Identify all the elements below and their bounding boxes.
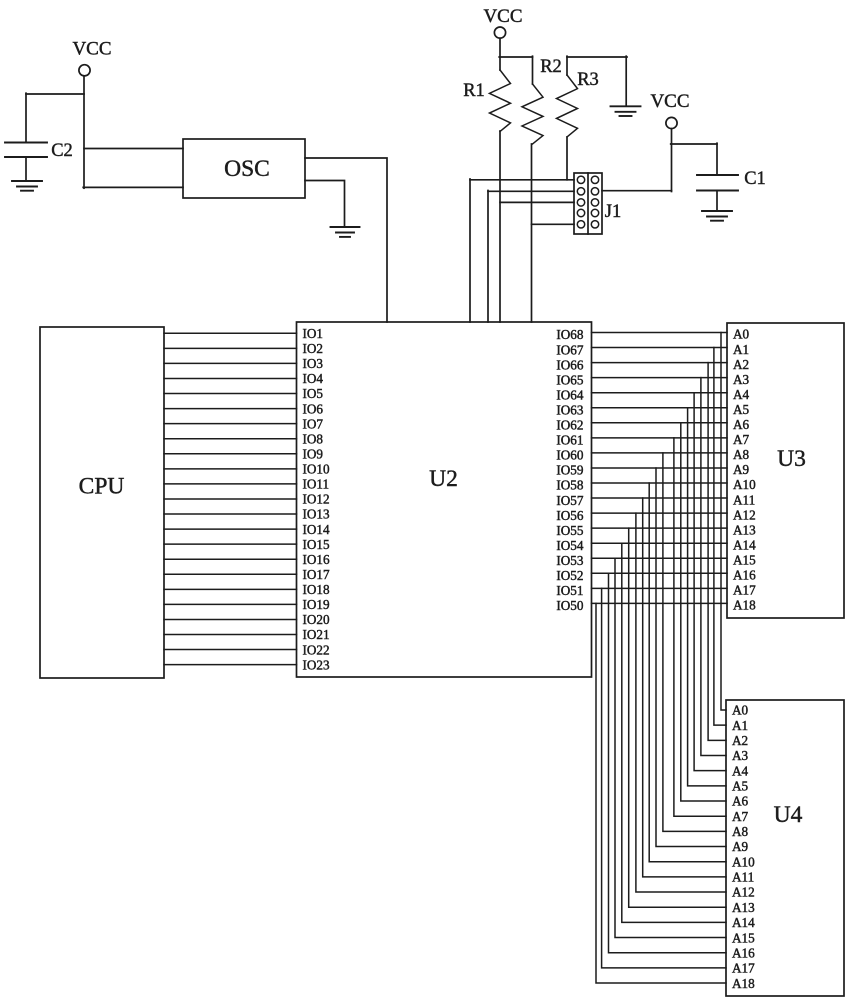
wire bus A8 down to U4 (663, 453, 726, 831)
svg-text:A16: A16 (732, 945, 755, 960)
svg-text:A0: A0 (732, 703, 749, 718)
wire CPU to U2 pin IO15 (164, 543, 297, 545)
wire (671, 143, 717, 145)
wire bus A5 down to U4 (688, 408, 726, 786)
wire (25, 157, 27, 181)
wire CPU to U2 pin IO8 (164, 438, 297, 440)
svg-text:IO50: IO50 (556, 598, 584, 613)
svg-text:IO15: IO15 (303, 537, 331, 552)
wire IO65 to U3 A3 (592, 377, 728, 379)
svg-text:U2: U2 (429, 466, 458, 492)
wire (532, 56, 534, 84)
wire CPU to U2 pin IO11 (164, 483, 297, 485)
svg-text:IO59: IO59 (556, 463, 584, 478)
svg-text:IO6: IO6 (303, 401, 324, 416)
wire (499, 38, 501, 70)
wire CPU to U2 pin IO3 (164, 362, 297, 364)
wire (716, 143, 718, 175)
svg-text:IO63: IO63 (556, 402, 584, 417)
svg-text:IO62: IO62 (556, 418, 583, 433)
wire (566, 56, 568, 75)
svg-text:A6: A6 (732, 794, 749, 809)
wire IO50 to U3 A18 (592, 602, 728, 604)
wire CPU to U2 pin IO13 (164, 513, 297, 515)
svg-text:IO9: IO9 (303, 446, 324, 461)
svg-text:VCC: VCC (483, 6, 522, 27)
svg-text:IO52: IO52 (556, 568, 583, 583)
svg-text:IO13: IO13 (303, 507, 331, 522)
ground (12, 181, 42, 191)
svg-text:IO14: IO14 (303, 522, 331, 537)
wire (487, 191, 489, 323)
wire bus A7 down to U4 (674, 438, 726, 816)
svg-text:A0: A0 (733, 327, 750, 342)
svg-text:A13: A13 (732, 900, 755, 915)
wire CPU to U2 pin IO17 (164, 573, 297, 575)
wire (84, 148, 183, 150)
wire bus A11 down to U4 (643, 498, 726, 877)
svg-text:A3: A3 (732, 748, 749, 763)
capacitor C1 (697, 174, 738, 176)
ground (611, 106, 641, 116)
svg-text:IO21: IO21 (303, 627, 330, 642)
memory U3 (727, 323, 844, 618)
resistor R2 (522, 84, 543, 144)
svg-text:A16: A16 (733, 568, 756, 583)
svg-text:A2: A2 (732, 733, 748, 748)
svg-text:IO17: IO17 (303, 567, 331, 582)
connector J1 body (574, 173, 602, 234)
svg-text:IO53: IO53 (556, 553, 584, 568)
svg-text:IO3: IO3 (303, 356, 324, 371)
svg-text:IO55: IO55 (556, 523, 584, 538)
svg-text:IO66: IO66 (556, 357, 584, 372)
wire IO58 to U3 A10 (592, 482, 728, 484)
wire IO57 to U3 A11 (592, 497, 728, 499)
svg-text:IO68: IO68 (556, 327, 584, 342)
wire IO56 to U3 A12 (592, 512, 728, 514)
svg-text:A12: A12 (733, 507, 756, 522)
ground (331, 227, 360, 237)
svg-text:IO4: IO4 (303, 371, 324, 386)
wire IO52 to U3 A16 (592, 572, 728, 574)
svg-text:IO54: IO54 (556, 538, 584, 553)
wire IO60 to U3 A8 (592, 452, 728, 454)
wire CPU to U2 pin IO5 (164, 393, 297, 395)
wire (305, 181, 345, 228)
svg-text:IO16: IO16 (303, 552, 331, 567)
wire bus A18 down to U4 (596, 603, 726, 983)
ground (702, 211, 732, 221)
svg-text:A6: A6 (733, 417, 750, 432)
svg-text:IO60: IO60 (556, 448, 584, 463)
svg-text:IO7: IO7 (303, 416, 324, 431)
svg-text:A9: A9 (732, 839, 749, 854)
svg-text:A5: A5 (733, 402, 750, 417)
wire bus A1 down to U4 (714, 348, 726, 726)
svg-text:IO57: IO57 (556, 493, 584, 508)
wire CPU to U2 pin IO23 (164, 664, 297, 666)
wire (488, 190, 574, 192)
svg-text:A10: A10 (733, 477, 756, 492)
resistor R1 (490, 70, 511, 132)
wire bus A17 down to U4 (602, 588, 726, 968)
wire (26, 93, 84, 95)
svg-text:A9: A9 (733, 462, 750, 477)
wire CPU to U2 pin IO1 (164, 332, 297, 334)
wire IO61 to U3 A7 (592, 437, 728, 439)
wire (532, 223, 575, 225)
wire bus A4 down to U4 (694, 393, 726, 771)
wire (469, 179, 471, 322)
svg-text:A18: A18 (732, 976, 755, 991)
svg-text:A15: A15 (732, 930, 755, 945)
svg-text:A14: A14 (732, 915, 755, 930)
wire (25, 93, 27, 142)
svg-text:A7: A7 (732, 809, 749, 824)
wire (499, 56, 532, 58)
wire bus A14 down to U4 (622, 543, 726, 922)
svg-text:CPU: CPU (79, 474, 125, 500)
wire IO51 to U3 A17 (592, 587, 728, 589)
wire (566, 137, 568, 180)
svg-text:IO20: IO20 (303, 612, 331, 627)
svg-text:U3: U3 (777, 446, 806, 472)
wire (500, 201, 574, 203)
wire (499, 131, 501, 322)
svg-text:IO5: IO5 (303, 386, 324, 401)
svg-text:VCC: VCC (650, 91, 689, 112)
svg-text:C1: C1 (744, 169, 766, 189)
wire (716, 191, 718, 212)
wire (531, 144, 533, 322)
svg-text:IO23: IO23 (303, 657, 331, 672)
wire CPU to U2 pin IO9 (164, 453, 297, 455)
resistor R3 (557, 75, 578, 137)
wire IO54 to U3 A14 (592, 542, 728, 544)
wire bus A12 down to U4 (636, 513, 726, 892)
svg-text:C2: C2 (51, 141, 73, 161)
svg-text:IO64: IO64 (556, 387, 584, 402)
wire CPU to U2 pin IO4 (164, 377, 297, 379)
svg-text:IO58: IO58 (556, 478, 584, 493)
svg-text:IO10: IO10 (303, 462, 331, 477)
wire (305, 158, 387, 322)
svg-text:U4: U4 (774, 802, 803, 828)
svg-text:A8: A8 (732, 824, 749, 839)
svg-text:IO11: IO11 (303, 477, 330, 492)
wire IO63 to U3 A5 (592, 407, 728, 409)
svg-text:IO67: IO67 (556, 342, 584, 357)
wire IO66 to U3 A2 (592, 362, 728, 364)
svg-text:IO56: IO56 (556, 508, 584, 523)
wire CPU to U2 pin IO7 (164, 423, 297, 425)
wire CPU to U2 pin IO20 (164, 618, 297, 620)
svg-text:A17: A17 (732, 961, 755, 976)
svg-text:A13: A13 (733, 522, 756, 537)
wire bus A9 down to U4 (656, 468, 726, 847)
svg-text:R3: R3 (577, 70, 599, 90)
svg-text:IO2: IO2 (303, 341, 324, 356)
svg-text:IO8: IO8 (303, 431, 324, 446)
svg-text:IO18: IO18 (303, 582, 331, 597)
memory U4 (726, 700, 844, 996)
oscillator OSC (183, 139, 305, 198)
wire IO67 to U3 A1 (592, 347, 728, 349)
wire CPU to U2 pin IO2 (164, 347, 297, 349)
svg-text:A4: A4 (732, 763, 749, 778)
wire bus A16 down to U4 (609, 573, 727, 952)
wire bus A6 down to U4 (681, 423, 726, 801)
wire IO53 to U3 A15 (592, 557, 728, 559)
wire IO62 to U3 A6 (592, 422, 728, 424)
wire IO59 to U3 A9 (592, 467, 728, 469)
svg-text:IO12: IO12 (303, 492, 330, 507)
wire IO55 to U3 A13 (592, 527, 728, 529)
svg-text:A11: A11 (733, 492, 755, 507)
wire CPU to U2 pin IO18 (164, 588, 297, 590)
wire (83, 76, 85, 188)
wire bus A13 down to U4 (629, 528, 726, 907)
wire (625, 56, 627, 106)
svg-text:A17: A17 (733, 583, 756, 598)
wire IO64 to U3 A4 (592, 392, 728, 394)
svg-text:IO51: IO51 (556, 583, 583, 598)
svg-text:A14: A14 (733, 537, 756, 552)
wire CPU to U2 pin IO16 (164, 558, 297, 560)
wire (83, 186, 183, 188)
wire (470, 179, 574, 181)
svg-text:IO19: IO19 (303, 597, 331, 612)
svg-text:A15: A15 (733, 552, 756, 567)
wire CPU to U2 pin IO12 (164, 498, 297, 500)
connector J1 pins (577, 176, 584, 183)
wire bus A3 down to U4 (701, 378, 726, 756)
microcontroller U2 (297, 322, 592, 677)
svg-text:IO1: IO1 (303, 326, 324, 341)
wire CPU to U2 pin IO19 (164, 603, 297, 605)
svg-text:A11: A11 (732, 870, 754, 885)
svg-text:R2: R2 (540, 57, 562, 77)
wire CPU to U2 pin IO22 (164, 649, 297, 651)
svg-text:A7: A7 (733, 432, 750, 447)
svg-text:A5: A5 (732, 779, 749, 794)
svg-text:J1: J1 (605, 202, 621, 222)
wire bus A2 down to U4 (708, 363, 726, 741)
svg-text:A3: A3 (733, 372, 750, 387)
svg-text:A12: A12 (732, 885, 755, 900)
wire CPU to U2 pin IO6 (164, 408, 297, 410)
wire (602, 190, 672, 192)
CPU U1 (40, 327, 164, 678)
wire (567, 56, 627, 58)
svg-text:OSC: OSC (224, 156, 270, 182)
svg-text:A10: A10 (732, 854, 755, 869)
svg-text:A4: A4 (733, 387, 750, 402)
svg-text:A1: A1 (733, 342, 749, 357)
wire bus A10 down to U4 (649, 483, 726, 862)
svg-text:A18: A18 (733, 598, 756, 613)
wire CPU to U2 pin IO21 (164, 634, 297, 636)
svg-text:VCC: VCC (72, 39, 111, 60)
wire bus A15 down to U4 (615, 558, 726, 937)
svg-text:A1: A1 (732, 718, 748, 733)
wire CPU to U2 pin IO10 (164, 468, 297, 470)
wire (671, 129, 673, 192)
svg-text:IO65: IO65 (556, 372, 584, 387)
wire bus A0 down to U4 (721, 333, 726, 711)
svg-text:A8: A8 (733, 447, 750, 462)
wire CPU to U2 pin IO14 (164, 528, 297, 530)
wire IO68 to U3 A0 (592, 332, 728, 334)
capacitor C2 (5, 142, 47, 144)
svg-text:R1: R1 (463, 81, 485, 101)
svg-text:IO22: IO22 (303, 642, 330, 657)
svg-text:A2: A2 (733, 357, 749, 372)
svg-text:IO61: IO61 (556, 433, 583, 448)
